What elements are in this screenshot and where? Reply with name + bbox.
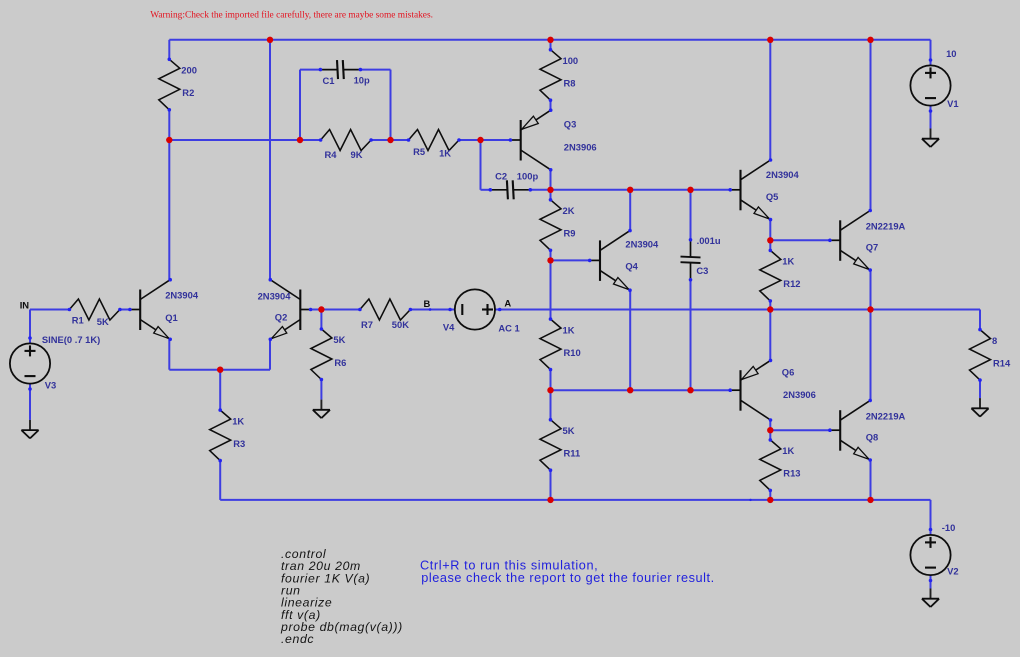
wire Q8 collector up <box>870 310 872 400</box>
svg-text:V3: V3 <box>45 380 56 391</box>
wire R12 top lead <box>769 240 771 250</box>
wire Q5 emitter down <box>769 219 771 241</box>
wire R2 top lead <box>168 40 170 60</box>
svg-text:Q4: Q4 <box>625 261 638 272</box>
wire C1 right lead <box>360 69 390 71</box>
junction C1 left / y140 rail <box>297 137 303 143</box>
wire Q8 emitter down <box>870 460 872 500</box>
svg-text:R4: R4 <box>325 149 338 160</box>
svg-text:IN: IN <box>20 300 30 311</box>
wire Q3 collector down <box>550 170 552 190</box>
junction common emitters / R3 <box>217 367 223 373</box>
svg-text:Q6: Q6 <box>782 367 795 378</box>
svg-text:9K: 9K <box>351 149 363 160</box>
wire R12 bottom lead <box>769 301 771 310</box>
resistor R4 (9K) <box>319 130 373 161</box>
node A label <box>504 297 511 308</box>
svg-text:Q8: Q8 <box>866 432 879 443</box>
wire Q6 emitter up <box>769 310 771 360</box>
svg-text:2N3904: 2N3904 <box>258 290 292 301</box>
svg-text:1K: 1K <box>563 324 575 335</box>
svg-text:1K: 1K <box>439 148 451 159</box>
wire Q2 collector up <box>269 40 271 280</box>
svg-text:.001u: .001u <box>697 235 721 246</box>
resistor R12 (1K) <box>760 249 801 303</box>
resistor R1 (5K) <box>68 299 122 327</box>
svg-text:100p: 100p <box>517 170 539 181</box>
wire V2 top lead <box>930 500 932 535</box>
voltage source V2 <box>910 522 958 582</box>
resistor R14 (8) <box>970 328 1011 382</box>
svg-text:C3: C3 <box>696 265 708 276</box>
wire C3 top lead <box>690 190 692 240</box>
capacitor C1 (10p) <box>319 60 370 86</box>
wire y140 to Q3 base <box>458 139 511 141</box>
svg-text:5K: 5K <box>333 334 345 345</box>
svg-text:1K: 1K <box>782 256 794 267</box>
svg-text:R3: R3 <box>233 438 245 449</box>
wire top supply rail <box>169 39 930 41</box>
wire Q1 emitter down <box>168 340 170 370</box>
svg-text:R2: R2 <box>182 87 194 98</box>
wire V1 top lead <box>930 40 932 65</box>
junction C3 bottom / y390 row <box>687 387 693 393</box>
warning text <box>150 10 433 21</box>
junction bottom rail / R13 <box>767 497 773 503</box>
svg-text:R7: R7 <box>361 319 373 330</box>
svg-text:V1: V1 <box>947 98 958 109</box>
voltage source V3 <box>10 334 100 391</box>
junction top rail / Q5 collector <box>767 37 773 43</box>
resistor R11 (5K) <box>540 418 580 472</box>
svg-text:SINE(0 .7 1K): SINE(0 .7 1K) <box>42 334 100 345</box>
transistor Q6 (2N3906) <box>728 359 815 422</box>
wire R9 bottom to Q4 base <box>551 259 590 261</box>
svg-text:5K: 5K <box>563 425 575 436</box>
junction Q3 base / C2 <box>477 137 483 143</box>
junction R9 bottom / Q4 base <box>547 257 553 263</box>
transistor Q4 (2N3904) <box>588 229 659 292</box>
svg-text:R5: R5 <box>413 146 425 157</box>
transistor Q2 (2N3904) <box>258 278 313 341</box>
ground (V2) <box>922 589 939 608</box>
resistor R2 (200) <box>159 58 197 112</box>
transistor Q5 (2N3904) <box>728 158 799 221</box>
svg-text:2N2219A: 2N2219A <box>866 221 906 232</box>
wire R14 top lead <box>979 310 981 330</box>
ground (R14) <box>971 398 988 417</box>
wire Q4 collector up <box>629 190 631 231</box>
resistor R6 (5K) <box>311 327 346 381</box>
svg-text:please check the report to get: please check the report to get the fouri… <box>421 571 714 585</box>
wire Q6 collector down <box>769 420 771 430</box>
node IN label <box>20 300 30 311</box>
svg-text:5K: 5K <box>97 316 109 327</box>
svg-text:R1: R1 <box>72 314 84 325</box>
resistor R8 (100) <box>540 48 578 102</box>
wire R9 bottom lead <box>550 250 552 260</box>
wire bottom supply rail <box>220 499 930 501</box>
resistor R10 (1K) <box>540 317 581 371</box>
capacitor C3 (.001u) <box>681 235 721 282</box>
svg-text:2N3906: 2N3906 <box>783 389 816 400</box>
svg-text:Warning:Check the imported fil: Warning:Check the imported file carefull… <box>150 10 433 21</box>
svg-text:Q1: Q1 <box>165 312 178 323</box>
wire Q3 base to C2 <box>480 140 482 190</box>
svg-text:Q2: Q2 <box>275 312 288 323</box>
junction R2 bottom / Q1 collector <box>166 137 172 143</box>
wire C1 left lead <box>300 69 320 71</box>
junction top rail / Q7 collector <box>867 37 873 43</box>
svg-text:2N3904: 2N3904 <box>766 169 800 180</box>
ground (V3) <box>21 420 38 439</box>
wire R6 top lead <box>320 310 322 330</box>
wire V4 left stub <box>450 309 455 311</box>
svg-text:C1: C1 <box>323 75 335 86</box>
wire V1 to ground <box>930 106 932 129</box>
svg-text:R8: R8 <box>564 78 576 89</box>
junction Q4 emitter / y390 row <box>627 387 633 393</box>
svg-text:-10: -10 <box>942 522 956 533</box>
svg-text:R14: R14 <box>993 357 1011 368</box>
svg-text:R9: R9 <box>564 228 576 239</box>
junction y190 / Q4 collector <box>627 187 633 193</box>
wire Q2 base to R7 <box>311 309 360 311</box>
junction top rail / Q2 collector <box>267 37 273 43</box>
wire Q6 collector to Q8 base <box>770 429 830 431</box>
svg-text:8: 8 <box>992 335 997 346</box>
svg-text:100: 100 <box>563 55 579 66</box>
wire V3 to ground <box>29 384 31 420</box>
wire node A rail <box>500 309 980 311</box>
wire V3 top lead <box>29 310 31 344</box>
wire R13 bottom lead <box>769 490 771 500</box>
svg-text:A: A <box>504 297 511 308</box>
note text <box>420 559 715 585</box>
svg-text:B: B <box>424 298 431 309</box>
capacitor C2 (100p) <box>489 170 539 199</box>
wire R14 to ground <box>979 380 981 398</box>
resistor R7 (50K) <box>358 299 412 330</box>
svg-text:C2: C2 <box>495 170 507 181</box>
wire V2 to ground <box>930 576 932 589</box>
svg-text:R13: R13 <box>783 468 800 479</box>
junction Q5 emitter / R12 / Q7 base <box>767 237 773 243</box>
resistor R5 (1K) <box>407 130 461 159</box>
wire R13 top lead <box>769 430 771 440</box>
junction bottom rail / R11 <box>547 497 553 503</box>
voltage source V1 <box>910 48 958 113</box>
junction R12 / Q6 emitter / node A <box>767 306 773 312</box>
junction top rail / R8 <box>547 37 553 43</box>
spice directive text <box>280 547 403 646</box>
svg-text:2K: 2K <box>563 205 575 216</box>
svg-text:200: 200 <box>181 65 197 76</box>
wire R3 top lead <box>219 370 221 410</box>
svg-text:Q7: Q7 <box>866 242 879 253</box>
svg-text:2N2219A: 2N2219A <box>866 411 906 422</box>
wire endpoint marker <box>749 499 751 501</box>
transistor Q3 (2N3906) <box>509 108 597 171</box>
svg-text:2N3904: 2N3904 <box>165 290 199 301</box>
transistor Q1 (2N3904) <box>128 278 199 341</box>
wire R10 bottom lead <box>550 370 552 391</box>
junction Q6 collector / R13 / Q8 base <box>767 427 773 433</box>
node B label <box>424 298 431 309</box>
junction C2 / R9 / Q3 collector <box>547 187 553 193</box>
junction bottom rail / Q8 emitter <box>867 497 873 503</box>
wire Q2 emitter down <box>269 340 271 370</box>
svg-text:10: 10 <box>946 48 956 59</box>
wire Q7 emitter down <box>870 270 872 310</box>
voltage source V4 <box>443 289 520 333</box>
svg-text:Q5: Q5 <box>766 191 779 202</box>
wire y190 row to Q5 base <box>551 189 731 191</box>
svg-text:1K: 1K <box>782 445 794 456</box>
wire node B <box>410 309 450 311</box>
wire C3 bottom lead <box>690 280 692 390</box>
wire R6 to ground <box>320 380 322 400</box>
wire R3 bottom lead <box>219 461 221 500</box>
resistor R3 (1K) <box>210 408 245 462</box>
wire R8 to Q3 emitter <box>550 100 552 110</box>
wire Q7 collector up <box>870 40 872 210</box>
wire R9 to R10 <box>550 260 552 319</box>
svg-text:R6: R6 <box>334 357 346 368</box>
junction C1 right / y140 rail <box>387 137 393 143</box>
svg-text:2N3906: 2N3906 <box>564 142 597 153</box>
transistor Q7 (2N2219A) <box>828 209 905 272</box>
wire R11 top lead <box>550 390 552 420</box>
wire Q5 emitter to Q7 base <box>770 239 830 241</box>
wire R9 top lead <box>550 190 552 200</box>
wire Q1 collector up <box>168 140 170 280</box>
resistor R9 (2K) <box>540 198 575 252</box>
wire Q4 emitter down <box>629 290 631 390</box>
svg-text:AC 1: AC 1 <box>498 323 519 334</box>
wire R11 bottom lead <box>550 470 552 500</box>
wire C1 left drop <box>299 70 301 140</box>
node B anchor dot <box>429 308 432 311</box>
wire C2 left lead <box>481 189 491 191</box>
svg-text:R11: R11 <box>564 448 581 459</box>
wire C1 right drop <box>390 70 392 140</box>
junction Q7 emitter / Q8 collector / node A <box>867 306 873 312</box>
svg-text:50K: 50K <box>392 319 409 330</box>
svg-text:Q3: Q3 <box>564 119 577 130</box>
junction R10 bottom / R11 <box>547 387 553 393</box>
junction y190 / C3 <box>687 187 693 193</box>
svg-text:V2: V2 <box>947 565 958 576</box>
junction Q2 base / R6 <box>318 306 324 312</box>
svg-text:R10: R10 <box>564 347 581 358</box>
wire R1 to Q1 base <box>119 309 130 311</box>
wire R8 top lead <box>550 40 552 50</box>
ground (R6) <box>313 400 330 419</box>
svg-text:1K: 1K <box>232 415 244 426</box>
wire R2 bottom lead <box>168 110 170 140</box>
wire y140 rail left <box>169 139 320 141</box>
transistor Q8 (2N2219A) <box>828 399 905 462</box>
svg-text:10p: 10p <box>354 75 370 86</box>
svg-text:.endc: .endc <box>281 632 314 646</box>
wire IN node <box>30 309 69 311</box>
wire y390 row to Q6 base <box>551 389 731 391</box>
svg-text:2N3904: 2N3904 <box>625 239 659 250</box>
wire Q5 collector up <box>769 40 771 160</box>
wire common emitter row <box>169 369 270 371</box>
svg-text:R12: R12 <box>783 278 800 289</box>
ground (V1) <box>922 129 939 148</box>
wire C2 to R9 top <box>530 189 550 191</box>
wire y140 between R4 R5 <box>370 139 409 141</box>
wire V4 right stub <box>494 309 499 311</box>
resistor R13 (1K) <box>760 438 801 492</box>
svg-text:V4: V4 <box>443 322 455 333</box>
